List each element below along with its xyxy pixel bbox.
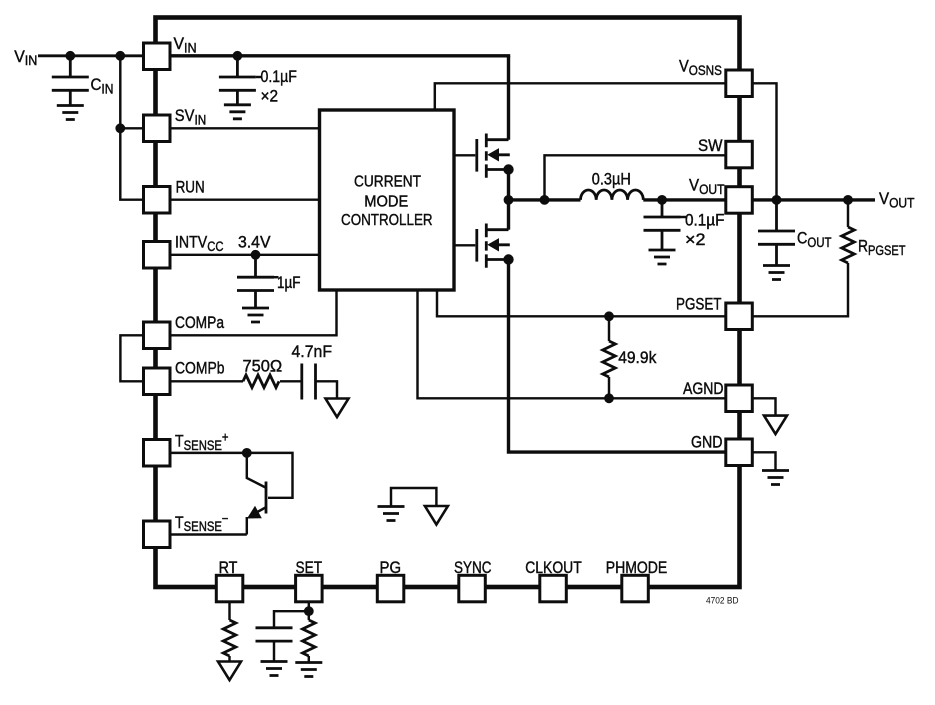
wire SW node to inductor bbox=[509, 198, 581, 201]
node TSENSE+ junction bbox=[242, 448, 252, 458]
ground 0.1uF input bbox=[224, 105, 251, 119]
svg-text:×2: ×2 bbox=[685, 230, 706, 249]
resistor SET bbox=[303, 620, 316, 656]
wire INTVCC to controller bbox=[170, 254, 320, 256]
wire VIN input bbox=[38, 54, 144, 57]
ground tie symbol triangle bbox=[425, 506, 448, 525]
wire inductor to VOUT pin bbox=[643, 198, 726, 201]
pin SYNC bbox=[459, 575, 486, 602]
ground tie symbol earth bbox=[391, 488, 436, 507]
ground 1uF bbox=[242, 308, 269, 322]
wire SVIN to controller bbox=[170, 127, 320, 129]
svg-text:GND: GND bbox=[691, 432, 723, 451]
ground COUT bbox=[763, 266, 790, 280]
ground GND earth bbox=[762, 471, 789, 485]
wire VIN to SVIN RUN bus bbox=[120, 56, 143, 200]
wire PGSET line bbox=[437, 290, 726, 316]
capacitor 4.7nF bbox=[302, 364, 316, 400]
MOSFET M1 top bbox=[454, 134, 514, 178]
outer IC boundary box bbox=[156, 18, 740, 588]
wire M1 source to SW node bbox=[507, 170, 510, 230]
svg-text:4702 BD: 4702 BD bbox=[706, 595, 739, 606]
svg-text:×2: ×2 bbox=[261, 86, 279, 105]
wire RUN to controller bbox=[170, 198, 320, 200]
inductor 0.3uH bbox=[581, 190, 644, 200]
capacitor 0.1uF x2 output bbox=[644, 217, 681, 230]
wire SW branch to SW pin bbox=[545, 155, 727, 200]
svg-text:MODE: MODE bbox=[364, 193, 408, 210]
pin GND bbox=[726, 439, 753, 466]
node 0.1uF tap bbox=[233, 51, 243, 61]
svg-text:1µF: 1µF bbox=[277, 273, 301, 292]
wire VOSNS sense line bbox=[435, 83, 726, 110]
resistor 49.9k bbox=[603, 341, 616, 377]
capacitor CIN bbox=[52, 77, 89, 90]
wire VOUT external bbox=[752, 198, 875, 201]
node SW branch junction bbox=[540, 195, 550, 205]
pin INTVCC bbox=[144, 242, 171, 269]
svg-text:750Ω: 750Ω bbox=[243, 357, 283, 376]
wire RT external bbox=[228, 602, 230, 621]
wire VOSNS external bbox=[752, 83, 777, 200]
node VIN input junction 1 bbox=[65, 51, 75, 61]
capacitor COUT bbox=[758, 231, 795, 244]
resistor RPGSET bbox=[842, 227, 855, 263]
node SW junction bbox=[504, 195, 514, 205]
wire 4.7nF to ground bbox=[280, 381, 337, 398]
pin PG bbox=[377, 575, 404, 602]
svg-text:COMPb: COMPb bbox=[175, 358, 225, 377]
pin PGSET bbox=[726, 303, 753, 330]
pin CLKOUT bbox=[540, 575, 567, 602]
label leader 1uF bbox=[274, 276, 279, 278]
svg-text:SW: SW bbox=[698, 136, 723, 155]
capacitor SET bbox=[256, 628, 293, 641]
pin SW bbox=[726, 141, 753, 168]
svg-text:PHMODE: PHMODE bbox=[606, 558, 668, 577]
svg-text:49.9k: 49.9k bbox=[618, 348, 657, 367]
capacitor 1uF bbox=[237, 277, 274, 290]
svg-text:CURRENT: CURRENT bbox=[354, 174, 421, 191]
node COUT tap bbox=[772, 195, 782, 205]
svg-text:PG: PG bbox=[380, 558, 402, 577]
svg-text:AGND: AGND bbox=[683, 379, 724, 398]
ground CIN bbox=[57, 106, 84, 120]
node SET junction bbox=[304, 606, 314, 616]
svg-text:RUN: RUN bbox=[176, 178, 205, 197]
svg-text:COMPa: COMPa bbox=[175, 313, 225, 332]
ground SET cap earth bbox=[261, 662, 288, 676]
node VIN input junction 2 bbox=[115, 51, 125, 61]
wire TSENSE+ bbox=[170, 453, 293, 498]
wire VIN rail to drain M1 bbox=[507, 56, 510, 140]
pin COMPb bbox=[144, 368, 171, 395]
pin TSENSE- bbox=[144, 521, 171, 548]
wire SET external bbox=[274, 602, 309, 628]
label leader 0.1uF output bbox=[681, 216, 687, 218]
wire TSENSE- bbox=[170, 533, 247, 535]
pin VIN bbox=[144, 43, 171, 70]
svg-text:SYNC: SYNC bbox=[454, 558, 492, 577]
node AGND resistor tap bbox=[604, 393, 614, 403]
pin AGND bbox=[726, 385, 753, 412]
pin TSENSE+ bbox=[144, 440, 171, 467]
wire COMPa COMPb bracket bbox=[120, 335, 143, 381]
wire GND external bbox=[752, 452, 776, 470]
pin PHMODE bbox=[622, 575, 649, 602]
ground AGND triangle bbox=[764, 416, 787, 435]
node 0.1uF out tap bbox=[657, 195, 667, 205]
svg-text:0.1µF: 0.1µF bbox=[261, 67, 297, 86]
svg-text:CONTROLLER: CONTROLLER bbox=[341, 212, 433, 229]
pin RUN bbox=[144, 187, 171, 214]
label leader 0.1uF input bbox=[256, 76, 262, 78]
pin COMPa bbox=[144, 322, 171, 349]
node PGSET resistor tap bbox=[604, 311, 614, 321]
pin RT bbox=[216, 575, 243, 602]
svg-text:3.4V: 3.4V bbox=[238, 233, 271, 252]
node SVIN tap bbox=[115, 123, 125, 133]
capacitor 0.1uF x2 input bbox=[219, 77, 256, 90]
ground COMPb triangle bbox=[326, 399, 349, 418]
wire COMPa to controller bbox=[170, 290, 337, 335]
ground RT triangle bbox=[218, 662, 241, 681]
resistor RT bbox=[223, 620, 236, 656]
pin SVIN bbox=[144, 115, 171, 142]
svg-text:0.3µH: 0.3µH bbox=[592, 169, 631, 188]
svg-text:4.7nF: 4.7nF bbox=[292, 342, 333, 361]
wire COMPb compensation bbox=[170, 380, 243, 382]
pin SET bbox=[296, 575, 323, 602]
pin VOSNS bbox=[726, 70, 753, 97]
wire AGND line bbox=[418, 290, 727, 398]
ground 0.1uF output bbox=[649, 250, 676, 264]
MOSFET M2 bottom bbox=[454, 224, 514, 268]
svg-text:CLKOUT: CLKOUT bbox=[525, 558, 582, 577]
pin VOUT bbox=[726, 187, 753, 214]
svg-text:SET: SET bbox=[296, 558, 323, 577]
controller block U1 bbox=[320, 110, 455, 290]
svg-text:PGSET: PGSET bbox=[676, 294, 722, 313]
transistor Q1 temp sense bbox=[265, 482, 268, 514]
wire VIN pin to MOSFET rail bbox=[170, 54, 510, 57]
ground SET resistor earth bbox=[295, 663, 322, 677]
svg-text:0.1µF: 0.1µF bbox=[685, 211, 725, 230]
resistor 750ohm bbox=[243, 375, 279, 388]
node INTVCC 1uF tap bbox=[251, 250, 261, 260]
node RPGSET tap bbox=[843, 195, 853, 205]
svg-text:RT: RT bbox=[219, 558, 238, 577]
wire AGND external bbox=[752, 398, 776, 415]
wire M2 source to GND line bbox=[509, 260, 727, 453]
